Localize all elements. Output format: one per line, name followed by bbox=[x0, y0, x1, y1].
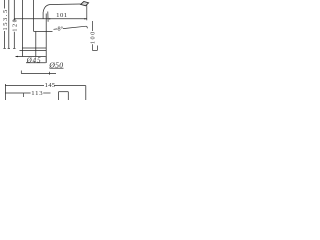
Ø45 underline leader bbox=[26, 62, 46, 64]
dim line 120 lower segment bbox=[13, 32, 15, 49]
counter extension right bbox=[92, 49, 97, 51]
body rung upper / dim line 101 bbox=[14, 18, 87, 20]
8 degree line right bbox=[63, 26, 86, 28]
Ø50 leader vertical bbox=[45, 56, 47, 63]
dim line 120 upper segment bbox=[13, 0, 15, 20]
body rung lower bbox=[34, 31, 53, 33]
flange bottom line bbox=[16, 56, 46, 58]
lower horizontal line bbox=[21, 73, 56, 75]
extension line at spout outlet bbox=[47, 12, 49, 22]
dim line 153.5 upper segment bbox=[4, 0, 6, 9]
svg-text:101: 101 bbox=[56, 12, 68, 19]
body left edge bbox=[21, 0, 23, 51]
dim line 100 upper segment bbox=[91, 21, 93, 31]
front view box right bbox=[67, 92, 69, 100]
tick 153.5 bottom bbox=[3, 47, 5, 49]
bottom view extension vertical bbox=[4, 84, 6, 100]
counter top line bbox=[22, 47, 46, 49]
dim line B bbox=[8, 0, 10, 48]
tick 120 bottom bbox=[13, 47, 15, 49]
flange left wall bbox=[21, 51, 23, 57]
8 degree hook bbox=[86, 26, 87, 28]
O50 underline bbox=[50, 67, 64, 69]
spout tip quad bbox=[81, 2, 89, 6]
flange line left arrow bbox=[15, 56, 18, 58]
lower leader vertical bbox=[20, 71, 22, 74]
front view box left bbox=[58, 92, 60, 100]
dim line 113 left bbox=[5, 92, 30, 94]
svg-text:8°: 8° bbox=[58, 26, 64, 33]
dim line 113 right bbox=[43, 92, 50, 94]
front view box top bbox=[59, 91, 69, 93]
svg-text:Ø50: Ø50 bbox=[48, 60, 63, 69]
svg-text:153.5: 153.5 bbox=[2, 8, 9, 30]
small tick crossing bbox=[49, 72, 51, 75]
tick B bottom bbox=[8, 47, 10, 49]
dim line 100 lower segment bbox=[91, 44, 93, 50]
body inner left upper bbox=[33, 0, 35, 31]
svg-text:100: 100 bbox=[90, 30, 97, 44]
front view right edge bbox=[85, 86, 87, 100]
dim line 145 right bbox=[54, 85, 86, 87]
svg-text:113: 113 bbox=[31, 90, 43, 97]
counter extension upturn bbox=[96, 46, 98, 51]
spout bend arc bbox=[43, 5, 50, 19]
tick 120 top end bbox=[13, 19, 15, 21]
arrow 101 left bbox=[48, 18, 50, 19]
svg-text:120: 120 bbox=[12, 18, 19, 32]
tick below 113 line bbox=[22, 93, 24, 97]
dim line 145 left bbox=[5, 85, 44, 87]
counter bottom line bbox=[20, 50, 47, 52]
arrow 101 right bbox=[84, 18, 86, 19]
8 degree line left bbox=[54, 28, 58, 30]
svg-text:145: 145 bbox=[45, 82, 56, 89]
svg-text:Ø45: Ø45 bbox=[26, 56, 42, 64]
shank line bbox=[35, 31, 37, 56]
extension line tip down bbox=[86, 5, 88, 20]
body right edge bbox=[45, 14, 47, 63]
dim line 153.5 lower segment bbox=[4, 31, 6, 48]
spout top line bbox=[51, 3, 81, 6]
